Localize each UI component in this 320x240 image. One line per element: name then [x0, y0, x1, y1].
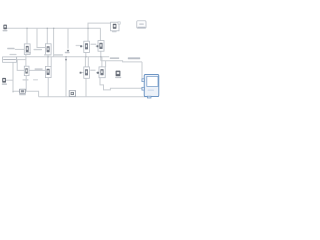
wire rail2 mid [17, 56, 110, 58]
port arrow GND1 [65, 50, 70, 53]
wire R1 right lead [17, 59, 26, 61]
source V1 inline on rail3 [69, 91, 75, 97]
wire U10 top pins [105, 61, 107, 67]
wire U9 bottom to rail3 [85, 78, 87, 97]
wire vertical to port arrow [67, 28, 69, 48]
wire vertical to U3 gate [26, 28, 28, 44]
wire U5 bottom pin [85, 53, 87, 57]
pin arrow U5 gate [80, 45, 82, 47]
wire jog into U6 top [99, 28, 101, 40]
wire U4 bottom pin [47, 55, 49, 57]
label U7 [23, 79, 29, 80]
wire rail3 ground [39, 96, 148, 98]
wire U6 gate stub [96, 45, 98, 47]
pin arrow U6 gate [97, 45, 99, 47]
wire R1 bottom drop [13, 62, 20, 91]
transistor U9 [80, 67, 90, 78]
wire rail1 VDD [7, 27, 101, 29]
label net out2 [128, 57, 140, 59]
wire F1 to corner [25, 91, 38, 97]
transistor U3 [24, 44, 31, 55]
label net U7-U8 [35, 68, 43, 70]
buffer U2 top right [111, 22, 121, 31]
label net out1 [110, 57, 119, 59]
wire U9 top pins [84, 57, 86, 67]
connector X3 mid right [115, 71, 121, 79]
wire U6 bottom through rail2 [100, 51, 102, 61]
connector X1 bottom left [2, 78, 7, 85]
label U4 [44, 54, 52, 55]
wire U5 gate stub [81, 45, 84, 47]
resistor R1 [3, 57, 17, 62]
wire U3 to U7 [25, 55, 27, 67]
wire rail2 left end drop [16, 57, 18, 60]
wire drop to U7 gate [17, 60, 24, 71]
wire bias column [65, 57, 67, 97]
transistor U8 [45, 66, 51, 77]
wire U8 bottom to rail3 [47, 78, 49, 97]
wire vertical into module tab [141, 62, 143, 79]
wire U4 top pin [46, 28, 48, 44]
module M1 blue box [142, 74, 159, 98]
label net A-B [34, 49, 43, 50]
transistor U6 [97, 41, 104, 52]
fuse F1 inline [19, 89, 26, 95]
label net C2-D2 [90, 70, 95, 71]
label inside M1 [148, 90, 154, 91]
wire net to output label [101, 61, 142, 62]
transistor U10 [97, 67, 105, 78]
label left of C [76, 45, 80, 46]
pin tab M1 left upper [142, 79, 145, 82]
port arrow bias [65, 59, 67, 61]
label net stub U3 [7, 48, 14, 50]
connector X2 top-left [3, 25, 8, 32]
wire U7 bottom to rail3 [25, 76, 27, 92]
label U2 [112, 31, 117, 32]
transistor U7 [24, 66, 29, 75]
junction dots [12, 28, 101, 93]
label net C-D [91, 44, 97, 45]
wire vertical jog to U4 [37, 28, 45, 47]
wire U10 gate stub [96, 72, 99, 74]
pin arrow U9 gate [80, 72, 82, 74]
pin tab M1 left lower [142, 87, 145, 90]
wire U9 gate stub [80, 72, 83, 74]
transistor U5 [80, 41, 89, 52]
label R1 [10, 54, 17, 55]
wire net stub left of U3 [15, 48, 24, 50]
wire top corner net [88, 23, 111, 41]
wire U8 top pins [47, 57, 49, 67]
pin tab M1 bottom [147, 96, 151, 98]
wire U7 to U8 [29, 69, 46, 71]
transistor U4 [45, 44, 51, 55]
wire U10 bottom to module [100, 78, 142, 90]
wire X1 stub [6, 79, 13, 81]
pin arrow U10 gate [97, 72, 99, 74]
wire vertical drop right of U4 [53, 28, 55, 56]
pin tab U2 [118, 22, 120, 24]
module F2 top right [137, 21, 146, 28]
